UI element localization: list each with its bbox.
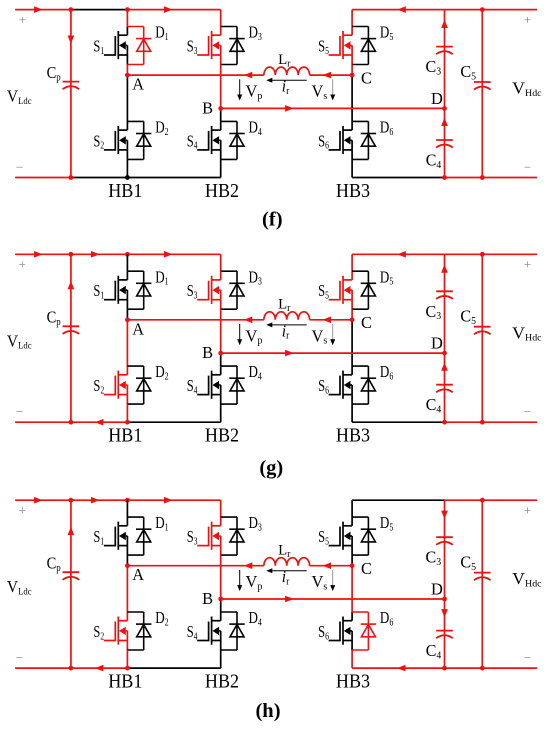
- node A (fig f): [125, 73, 130, 78]
- diode D1 (fig h): [127, 517, 151, 555]
- wire bottom-left rail (fig f): [15, 177, 221, 179]
- wire top-left rail (fig f): [15, 6, 221, 13]
- wire C5 branch (fig f): [481, 10, 483, 178]
- transistor S1 (fig h): [104, 517, 128, 555]
- svg-text:+: +: [524, 257, 531, 272]
- diode D2 (fig h): [127, 612, 151, 650]
- svg-text:+: +: [524, 12, 531, 27]
- wire S1 drain link (fig g): [126, 254, 128, 271]
- annotation Vs arrow (fig g): [330, 324, 335, 345]
- svg-text:HB1: HB1: [108, 671, 142, 693]
- wire C5 branch (fig g): [481, 254, 483, 422]
- svg-text:−: −: [16, 404, 23, 419]
- svg-text:D: D: [431, 334, 443, 353]
- transistor S5 (fig h): [329, 517, 353, 555]
- wire S4 drain link (fig g): [220, 353, 222, 366]
- node D (fig g): [442, 351, 447, 356]
- wire S2 source link (fig g): [126, 404, 128, 422]
- svg-text:D: D: [431, 89, 443, 108]
- capacitor C3 (fig h): [436, 537, 453, 545]
- annotation Vp arrow (fig f): [237, 79, 242, 100]
- wire S4 source link (fig f): [220, 159, 222, 177]
- transistor S6 (fig g): [329, 366, 353, 404]
- diode D2 (fig g): [127, 366, 151, 404]
- wire S1 drain link (fig f): [126, 10, 128, 27]
- svg-text:D: D: [431, 580, 443, 599]
- wire C3 branch (fig f): [441, 10, 448, 109]
- wire S2 drain link (fig f): [126, 75, 128, 121]
- wire node A to inductor (fig f): [127, 72, 264, 79]
- wire C3 branch (fig h): [441, 500, 448, 599]
- annotation Vp arrow (fig g): [237, 324, 242, 345]
- capacitor C3 (fig g): [436, 291, 453, 299]
- wire C4 branch (fig f): [441, 108, 448, 177]
- wire S1 drain link (fig h): [126, 500, 128, 517]
- diode D5 (fig h): [352, 517, 376, 555]
- wire Cp branch (fig f): [68, 10, 75, 178]
- wire S3 drain link (fig h): [220, 500, 222, 517]
- annotation ir arrow (fig h): [266, 568, 306, 573]
- wire S4 drain link (fig h): [220, 599, 222, 612]
- diode D3 (fig f): [221, 27, 245, 65]
- junction bottom rail / C4 branch (fig h): [442, 666, 447, 671]
- diode D6 (fig g): [352, 366, 376, 404]
- svg-text:−: −: [524, 404, 531, 419]
- junction bottom rail / Cp branch (fig h): [69, 666, 74, 671]
- wire node A to inductor (fig h): [127, 562, 264, 569]
- svg-text:+: +: [19, 503, 26, 518]
- wire S4 source link (fig h): [220, 650, 222, 668]
- wire S6 source link (fig h): [351, 650, 353, 668]
- svg-text:B: B: [202, 589, 213, 608]
- wire S3 source link (fig g): [220, 309, 222, 353]
- diode D3 (fig h): [221, 517, 245, 555]
- wire S2 drain link (fig g): [126, 320, 128, 366]
- wire node B to node D (fig f): [221, 105, 445, 112]
- diode D6 (fig f): [352, 121, 376, 159]
- wire S6 drain link (fig h): [351, 566, 353, 612]
- svg-text:HB3: HB3: [336, 180, 370, 202]
- wire S6 source link (fig f): [351, 159, 353, 177]
- capacitor Cp (fig h): [63, 572, 80, 580]
- svg-text:C: C: [361, 313, 372, 332]
- wire S5 source link (fig f): [351, 65, 353, 76]
- svg-text:+: +: [524, 503, 531, 518]
- junction bottom rail / C5 branch (fig g): [480, 420, 485, 425]
- capacitor Cp (fig g): [63, 326, 80, 334]
- svg-text:HB1: HB1: [108, 425, 142, 447]
- junction top rail / HB1 (fig f): [125, 7, 130, 12]
- transistor S4 (fig g): [197, 366, 221, 404]
- transistor S5 (fig g): [329, 271, 353, 309]
- svg-text:C: C: [361, 68, 372, 87]
- svg-text:B: B: [202, 99, 213, 118]
- svg-text:(f): (f): [262, 209, 282, 231]
- diode D4 (fig g): [221, 366, 245, 404]
- wire bottom-right rail (fig f): [352, 177, 537, 179]
- wire bottom-right rail (fig h): [352, 665, 537, 672]
- junction bottom rail / C5 branch (fig h): [480, 666, 485, 671]
- inductor Lr (fig f): [264, 67, 310, 75]
- svg-text:HB3: HB3: [336, 425, 370, 447]
- transistor S1 (fig f): [104, 27, 128, 65]
- wire node B to node D (fig g): [221, 350, 445, 357]
- wire S1 source link (fig g): [126, 309, 128, 320]
- wire bottom-left rail (fig g): [15, 419, 221, 426]
- svg-text:A: A: [132, 75, 144, 94]
- svg-text:HB3: HB3: [336, 671, 370, 693]
- svg-text:(g): (g): [259, 457, 283, 479]
- capacitor C5 (fig f): [474, 82, 491, 90]
- transistor S5 (fig f): [329, 27, 353, 65]
- node A (fig h): [125, 563, 130, 568]
- wire S4 drain link (fig f): [220, 108, 222, 121]
- diode D2 (fig f): [127, 121, 151, 159]
- svg-text:(h): (h): [255, 700, 280, 722]
- wire S6 drain link (fig g): [351, 320, 353, 366]
- junction bottom rail / HB1 (fig f): [125, 175, 130, 180]
- capacitor C4 (fig f): [436, 140, 453, 148]
- wire C5 branch (fig h): [481, 500, 483, 668]
- wire S5 source link (fig g): [351, 309, 353, 320]
- diode D1 (fig f): [127, 27, 151, 65]
- capacitor C4 (fig g): [436, 385, 453, 393]
- inductor Lr (fig h): [264, 558, 310, 566]
- transistor S2 (fig h): [104, 612, 128, 650]
- junction bottom rail / C5 branch (fig f): [480, 175, 485, 180]
- capacitor C3 (fig f): [436, 47, 453, 55]
- diode D1 (fig g): [127, 271, 151, 309]
- transistor S4 (fig h): [197, 612, 221, 650]
- wire S3 drain link (fig g): [220, 254, 222, 271]
- wire node B to node D (fig h): [221, 596, 445, 603]
- wire S2 source link (fig h): [126, 650, 128, 668]
- wire S6 source link (fig g): [351, 404, 353, 422]
- node A (fig g): [125, 317, 130, 322]
- wire S2 drain link (fig h): [126, 566, 128, 612]
- diode D4 (fig f): [221, 121, 245, 159]
- junction bottom rail / HB1 (fig h): [125, 666, 130, 671]
- wire S5 drain link (fig g): [351, 254, 353, 271]
- junction top rail / HB1 (fig g): [125, 252, 130, 257]
- svg-text:+: +: [19, 257, 26, 272]
- node C (fig f): [350, 73, 355, 78]
- node B (fig f): [218, 106, 223, 111]
- svg-text:−: −: [524, 650, 531, 665]
- svg-text:HB1: HB1: [108, 180, 142, 202]
- svg-text:C: C: [361, 559, 372, 578]
- junction top rail / Cp branch (fig h): [69, 498, 74, 503]
- wire C3 branch (fig g): [441, 254, 448, 353]
- svg-text:−: −: [524, 159, 531, 174]
- wire node A to inductor (fig g): [127, 317, 264, 324]
- junction bottom rail / HB1 (fig g): [125, 420, 130, 425]
- node C (fig h): [350, 563, 355, 568]
- transistor S6 (fig h): [329, 612, 353, 650]
- wire inductor to node C (fig f): [310, 72, 353, 79]
- wire S1 source link (fig f): [126, 65, 128, 76]
- transistor S6 (fig f): [329, 121, 353, 159]
- diode D6 (fig h): [352, 612, 376, 650]
- svg-text:A: A: [132, 565, 144, 584]
- wire top-right rail (fig f): [352, 6, 537, 13]
- wire S6 drain link (fig f): [351, 75, 353, 121]
- svg-text:−: −: [16, 650, 23, 665]
- junction top rail / Cp branch (fig f): [69, 7, 74, 12]
- junction top rail / Cp branch (fig g): [69, 252, 74, 257]
- diode D5 (fig f): [352, 27, 376, 65]
- junction top rail / C5 branch (fig h): [480, 498, 485, 503]
- annotation ir arrow (fig f): [266, 78, 306, 83]
- wire inductor to node C (fig g): [310, 317, 353, 324]
- node D (fig h): [442, 597, 447, 602]
- wire inductor to node C (fig h): [310, 562, 353, 569]
- transistor S3 (fig h): [197, 517, 221, 555]
- annotation Vs arrow (fig h): [330, 570, 335, 591]
- annotation ir arrow (fig g): [266, 322, 306, 327]
- node B (fig h): [218, 597, 223, 602]
- junction top rail / HB1 (fig h): [125, 498, 130, 503]
- wire bottom-left rail (fig h): [15, 665, 221, 672]
- node D (fig f): [442, 106, 447, 111]
- wire Cp branch (fig h): [68, 500, 75, 668]
- transistor S3 (fig f): [197, 27, 221, 65]
- junction top rail / C5 branch (fig g): [480, 252, 485, 257]
- svg-text:+: +: [19, 12, 26, 27]
- wire S3 source link (fig f): [220, 65, 222, 109]
- svg-text:−: −: [16, 159, 23, 174]
- wire S5 drain link (fig f): [351, 10, 353, 27]
- svg-text:HB2: HB2: [205, 671, 239, 693]
- wire S3 source link (fig h): [220, 555, 222, 599]
- wire top-left rail (fig g): [15, 251, 221, 258]
- junction bottom rail / Cp branch (fig f): [69, 175, 74, 180]
- annotation Vs arrow (fig f): [330, 79, 335, 100]
- svg-text:A: A: [132, 319, 144, 338]
- node C (fig g): [350, 317, 355, 322]
- inductor Lr (fig g): [264, 312, 310, 320]
- capacitor Cp (fig f): [63, 82, 80, 90]
- capacitor C5 (fig h): [474, 573, 491, 581]
- junction top rail / C5 branch (fig f): [480, 7, 485, 12]
- wire S3 drain link (fig f): [220, 10, 222, 27]
- wire bottom-right rail (fig g): [352, 421, 537, 423]
- wire S4 source link (fig g): [220, 404, 222, 422]
- wire C4 branch (fig g): [441, 353, 448, 422]
- wire top-left rail (fig h): [15, 497, 221, 504]
- junction bottom rail / Cp branch (fig g): [69, 420, 74, 425]
- capacitor C4 (fig h): [436, 631, 453, 639]
- diode D5 (fig g): [352, 271, 376, 309]
- svg-text:HB2: HB2: [205, 180, 239, 202]
- transistor S4 (fig f): [197, 121, 221, 159]
- diode D4 (fig h): [221, 612, 245, 650]
- transistor S2 (fig f): [104, 121, 128, 159]
- capacitor C5 (fig g): [474, 327, 491, 335]
- svg-text:B: B: [202, 343, 213, 362]
- node B (fig g): [218, 351, 223, 356]
- wire S1 source link (fig h): [126, 555, 128, 566]
- junction bottom rail / C4 branch (fig g): [442, 420, 447, 425]
- junction bottom rail / C4 branch (fig f): [442, 175, 447, 180]
- wire top-right rail (fig g): [352, 251, 537, 258]
- transistor S2 (fig g): [104, 366, 128, 404]
- annotation Vp arrow (fig h): [237, 570, 242, 591]
- wire S2 source link (fig f): [126, 159, 128, 177]
- diode D3 (fig g): [221, 271, 245, 309]
- wire S5 drain link (fig h): [351, 500, 353, 517]
- svg-text:HB2: HB2: [205, 425, 239, 447]
- wire C4 branch (fig h): [441, 599, 448, 668]
- wire top-right rail (fig h): [352, 499, 537, 501]
- wire Cp branch (fig g): [68, 254, 75, 422]
- wire S5 source link (fig h): [351, 555, 353, 566]
- transistor S1 (fig g): [104, 271, 128, 309]
- transistor S3 (fig g): [197, 271, 221, 309]
